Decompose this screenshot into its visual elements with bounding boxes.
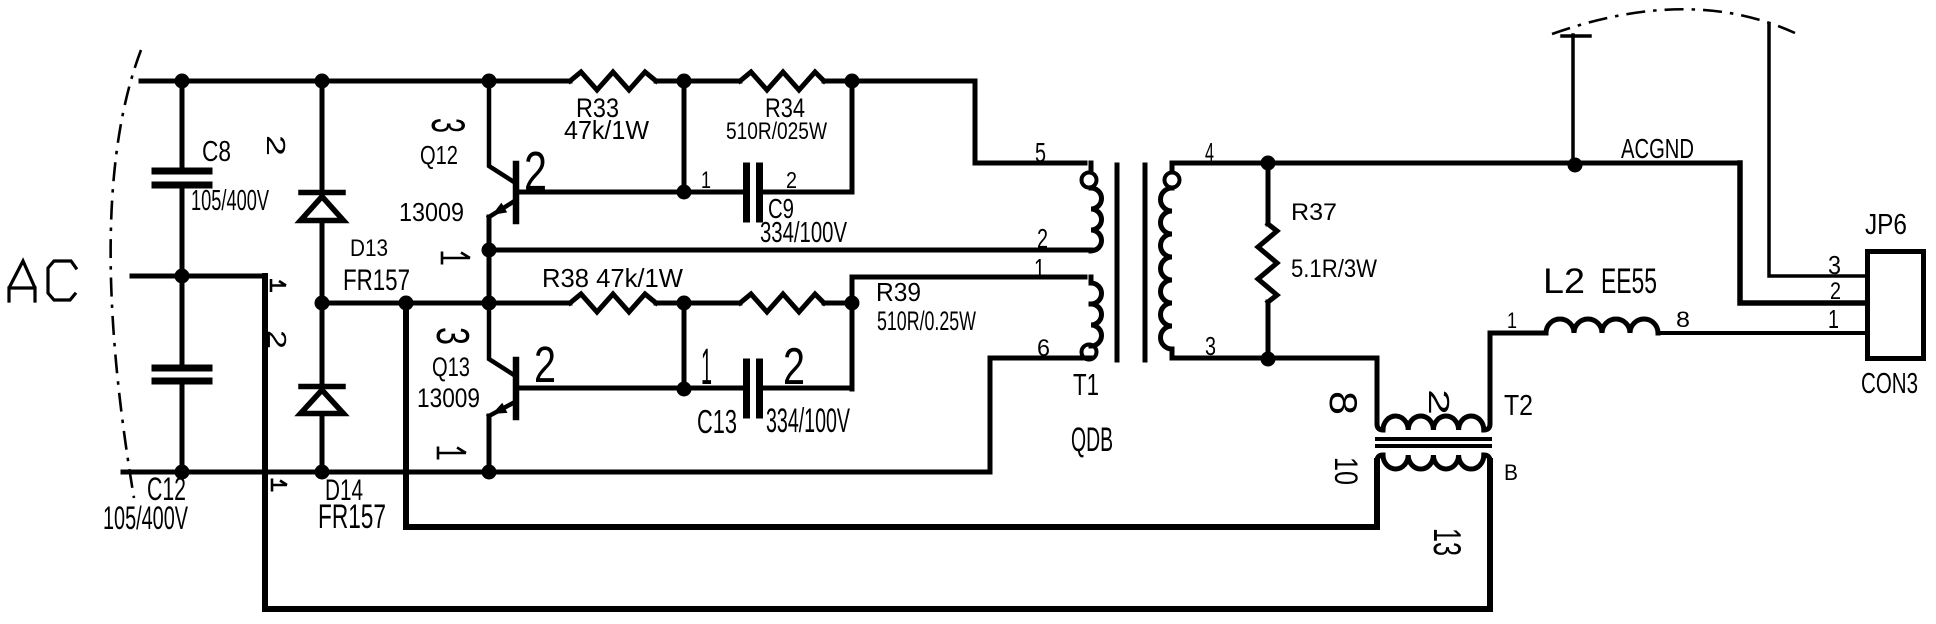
capacitor C12 plates bbox=[155, 368, 209, 381]
diode D13 symbol bbox=[301, 190, 343, 196]
resistor R39 bbox=[740, 294, 824, 312]
node junction (852,303) bbox=[845, 296, 860, 311]
svg-text:6: 6 bbox=[1037, 335, 1050, 362]
svg-text:T2: T2 bbox=[1504, 390, 1533, 422]
svg-text:1: 1 bbox=[701, 167, 711, 194]
svg-text:2: 2 bbox=[783, 338, 805, 396]
svg-text:4: 4 bbox=[1205, 137, 1214, 168]
svg-text:13009: 13009 bbox=[399, 197, 464, 227]
wire : rail right to T1 pin 5 bbox=[824, 81, 1085, 163]
capacitor C8 leads bbox=[180, 81, 185, 276]
svg-text:3: 3 bbox=[1205, 331, 1216, 361]
resistor R34 bbox=[740, 72, 824, 90]
capacitor C12 leads bbox=[180, 276, 185, 472]
svg-text:QDB: QDB bbox=[1071, 421, 1113, 459]
wire : bottom return at y=472 to T1 pin 6 bbox=[123, 358, 1085, 472]
svg-text:R38 47k/1W: R38 47k/1W bbox=[542, 263, 683, 293]
svg-text:105/400V: 105/400V bbox=[191, 185, 269, 217]
svg-text:2: 2 bbox=[524, 140, 547, 202]
transformer T1 secondary winding bbox=[1165, 173, 1180, 188]
svg-text:C13: C13 bbox=[697, 403, 737, 440]
node junction (684,81) bbox=[677, 74, 692, 89]
svg-text:3: 3 bbox=[422, 118, 475, 133]
wire : AC line 2 down and bottom-most rail to T2 pin 13 bbox=[265, 276, 1490, 609]
wire : L2 pin8 to JP6 pin 1 bbox=[1658, 331, 1866, 335]
svg-text:5.1R/3W: 5.1R/3W bbox=[1291, 255, 1377, 283]
wire : Q12 base wire to C9 bbox=[517, 190, 744, 195]
node junction (489,81) bbox=[482, 74, 497, 89]
svg-text:2: 2 bbox=[534, 336, 556, 393]
transformer T2 core bbox=[1377, 439, 1490, 446]
node junction (182,472) bbox=[175, 465, 190, 480]
svg-text:2: 2 bbox=[786, 167, 797, 193]
svg-text:Q12: Q12 bbox=[420, 140, 458, 170]
wire : between R38 and R39 bbox=[656, 301, 740, 306]
wire : boundary drop to JP6 pin 3 bbox=[1769, 24, 1866, 276]
svg-text:FR157: FR157 bbox=[343, 264, 410, 297]
node junction (684,192) bbox=[677, 185, 692, 200]
svg-text:FR157: FR157 bbox=[318, 498, 386, 536]
wire : R39 right stub bbox=[824, 301, 852, 306]
wire : Q12 emitter down to Q13 collector node bbox=[487, 250, 492, 303]
node junction (182,276) bbox=[175, 269, 190, 284]
boundary dash-dot arc right bbox=[1552, 9, 1795, 34]
node junction (684,389) bbox=[677, 382, 692, 397]
resistor R38 bbox=[570, 294, 656, 312]
wire : T1 pin3 to T2 pin 8 bbox=[1172, 356, 1377, 361]
svg-text:105/400V: 105/400V bbox=[103, 500, 188, 536]
svg-text:B: B bbox=[1504, 460, 1518, 485]
pin 1 mark of C8 bbox=[271, 279, 286, 292]
transformer T1 primary top winding bbox=[1089, 163, 1094, 171]
svg-text:1: 1 bbox=[1034, 253, 1045, 284]
transformer T1 primary bottom winding bbox=[1091, 277, 1102, 346]
resistor R37 bbox=[1266, 163, 1271, 224]
transistor Q13 bbox=[489, 303, 516, 472]
node junction (1268,163) bbox=[1261, 156, 1276, 171]
wire : ACGND down to JP6 pin 2 bbox=[1740, 163, 1866, 303]
transistor Q12 bbox=[489, 81, 516, 250]
node junction (322,303) bbox=[315, 296, 330, 311]
svg-text:8: 8 bbox=[1676, 307, 1690, 332]
svg-text:3: 3 bbox=[427, 327, 479, 345]
capacitor C8 plates bbox=[155, 171, 209, 185]
svg-text:1: 1 bbox=[1828, 304, 1839, 334]
svg-text:Q13: Q13 bbox=[432, 352, 470, 382]
svg-text:10: 10 bbox=[1328, 457, 1364, 485]
svg-text:1: 1 bbox=[1507, 308, 1517, 333]
transformer T1 core bbox=[1117, 165, 1145, 360]
wire : C13 pin1 node down from R38 row bbox=[682, 303, 687, 389]
connector JP6 bbox=[1868, 252, 1924, 359]
wire : Q12 emitter to T1 pin 2 bbox=[489, 248, 1085, 253]
wire : vertical from R38 row down to y=527 rail and to T2 pin 10 bbox=[406, 303, 1377, 527]
transformer T2 top winding bbox=[1377, 333, 1490, 430]
wire : C13 pin2 wire and vertical to R39 node and T1 pin1 wire bbox=[762, 277, 1085, 389]
node junction (1268,359) bbox=[1261, 352, 1276, 367]
svg-text:2: 2 bbox=[1422, 389, 1454, 415]
capacitor C9 plates bbox=[747, 166, 760, 219]
svg-text:EE55: EE55 bbox=[1601, 262, 1657, 301]
svg-text:JP6: JP6 bbox=[1865, 209, 1907, 241]
svg-text:3: 3 bbox=[1828, 250, 1841, 280]
AC label bbox=[9, 261, 76, 301]
diode D14 lead bbox=[320, 303, 325, 472]
pin 1 mark of Q12 bbox=[442, 252, 470, 265]
svg-text:L2: L2 bbox=[1543, 262, 1585, 301]
diode D14 symbol bbox=[301, 384, 343, 390]
svg-text:2: 2 bbox=[262, 330, 292, 349]
svg-text:C8: C8 bbox=[202, 136, 231, 168]
node junction (182,81) bbox=[175, 74, 190, 89]
wire : earth stub at ACGND bbox=[1562, 35, 1590, 165]
svg-text:510R/0.25W: 510R/0.25W bbox=[877, 306, 976, 336]
inductor L2 bbox=[1490, 319, 1658, 333]
node junction (406,303) bbox=[399, 296, 414, 311]
node junction (322,472) bbox=[315, 465, 330, 480]
svg-text:CON3: CON3 bbox=[1861, 368, 1918, 400]
svg-text:510R/025W: 510R/025W bbox=[726, 118, 827, 145]
resistor R33 bbox=[570, 72, 656, 90]
svg-text:1: 1 bbox=[701, 338, 712, 395]
transformer T2 bottom winding bbox=[1377, 455, 1490, 469]
svg-text:13: 13 bbox=[1425, 528, 1468, 556]
svg-text:R39: R39 bbox=[876, 277, 921, 307]
node junction (684,303) bbox=[677, 296, 692, 311]
svg-text:2: 2 bbox=[1830, 278, 1841, 305]
svg-text:2: 2 bbox=[261, 135, 291, 156]
svg-text:2: 2 bbox=[1037, 223, 1048, 254]
svg-text:13009: 13009 bbox=[417, 383, 480, 413]
pin 1 mark of Q13 bbox=[438, 447, 466, 460]
wire : R33 output down to Q12 base node bbox=[682, 81, 687, 192]
boundary dash-dot arc left bbox=[111, 50, 141, 498]
svg-text:D13: D13 bbox=[350, 235, 388, 262]
wire : base drive row y=303 bbox=[322, 301, 570, 306]
capacitor C13 plates bbox=[747, 362, 760, 415]
wire : T1 pin4 / ACGND run bbox=[1172, 161, 1740, 166]
node junction (489,250) bbox=[482, 243, 497, 258]
wire : AC mid wire bbox=[132, 274, 265, 279]
svg-text:8: 8 bbox=[1321, 391, 1364, 415]
pin 1 mark of C12 bbox=[272, 479, 287, 492]
svg-text:334/100V: 334/100V bbox=[760, 217, 847, 249]
wire : AC top rail left segment bbox=[141, 79, 570, 84]
svg-text:T1: T1 bbox=[1073, 367, 1099, 402]
node junction (489,472) bbox=[482, 465, 497, 480]
svg-text:5: 5 bbox=[1035, 137, 1046, 168]
wire : C9 pin2 up to rail bbox=[762, 81, 852, 192]
wire : rail between R33 and R34 bbox=[656, 79, 740, 84]
diode D13 lead bbox=[320, 81, 325, 303]
node junction (489,303) bbox=[482, 296, 497, 311]
svg-text:ACGND: ACGND bbox=[1621, 133, 1694, 164]
svg-text:334/100V: 334/100V bbox=[766, 402, 850, 440]
wire : Q13 base wire to C13 bbox=[518, 386, 744, 391]
node junction (1575,165) bbox=[1568, 158, 1583, 173]
svg-text:R37: R37 bbox=[1291, 199, 1337, 226]
node junction (852,81) bbox=[845, 74, 860, 89]
svg-text:47k/1W: 47k/1W bbox=[564, 115, 649, 145]
node junction (322,81) bbox=[315, 74, 330, 89]
